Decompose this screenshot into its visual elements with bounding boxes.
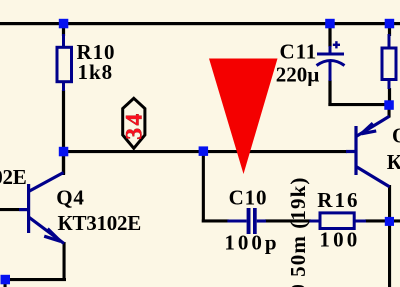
wire bottom left: [4, 278, 66, 281]
resistor R10: [57, 34, 72, 91]
resistor R16: [310, 213, 367, 229]
wire C10 left: [202, 219, 229, 222]
svg-text:100p: 100p: [224, 230, 279, 254]
svg-text:100: 100: [319, 227, 360, 251]
wire mid rail: [62, 150, 347, 153]
wire Q4 base: [0, 208, 19, 211]
svg-text:C10: C10: [229, 185, 268, 209]
svg-text:34: 34: [121, 111, 147, 140]
wire C10 to R16: [265, 219, 311, 222]
junction node right resistor/top rail: [385, 19, 395, 29]
wire right resistor bottom lead: [388, 88, 391, 104]
node marker hexagon 34: [123, 98, 145, 148]
wire Q4 collector vertical: [62, 152, 65, 174]
transistor Q? (PNP, right): [346, 116, 390, 187]
svg-text:220µ: 220µ: [276, 62, 320, 86]
wire C10 branch vertical: [202, 152, 205, 223]
wire C11 top lead: [328, 25, 331, 47]
svg-text:R16: R16: [317, 188, 359, 212]
wire PNP collector vertical: [388, 185, 391, 222]
junction node C11 bottom / PNP emitter: [384, 100, 394, 110]
wire C11 to PNP emitter node: [328, 103, 390, 106]
svg-text:C11: C11: [280, 39, 318, 63]
wire right column stub down to edge: [388, 222, 391, 287]
junction node bottom left: [1, 275, 11, 285]
wire PNP emitter vertical: [388, 104, 391, 118]
C11 plus sign: [333, 41, 340, 48]
junction node mid rail / R10 bottom: [59, 147, 69, 157]
capacitor C11 (polarized): [317, 46, 345, 81]
svg-text:1k8: 1k8: [78, 60, 114, 84]
wire R10 bottom lead: [62, 90, 65, 175]
resistor R? (right): [382, 34, 396, 89]
junction node mid rail / C10 branch: [199, 146, 209, 156]
junction node C11/top rail: [325, 19, 335, 29]
junction node R16 right / collector: [385, 217, 394, 226]
svg-text:КТ3102Е: КТ3102Е: [0, 165, 27, 189]
junction node top-left (R10/top rail): [59, 19, 69, 29]
red marker triangle: [209, 59, 278, 175]
wire R16 right: [365, 219, 400, 222]
svg-text:КТ3102Е: КТ3102Е: [58, 211, 142, 235]
wire R10 top lead: [62, 25, 65, 36]
transistor Q4 (NPN): [19, 173, 64, 244]
wire right resistor top lead: [388, 25, 391, 36]
wire top rail: [0, 22, 400, 25]
capacitor C10: [247, 208, 257, 234]
wire bottom-left stub down: [4, 280, 7, 287]
wire Q4 emitter vertical: [63, 242, 66, 281]
svg-text:0 50m (19k): 0 50m (19k): [286, 177, 310, 287]
svg-text:Q4: Q4: [56, 186, 84, 210]
svg-text:Q: Q: [392, 124, 400, 148]
svg-text:КТ: КТ: [387, 150, 400, 174]
wire C11 bottom lead: [328, 80, 331, 106]
